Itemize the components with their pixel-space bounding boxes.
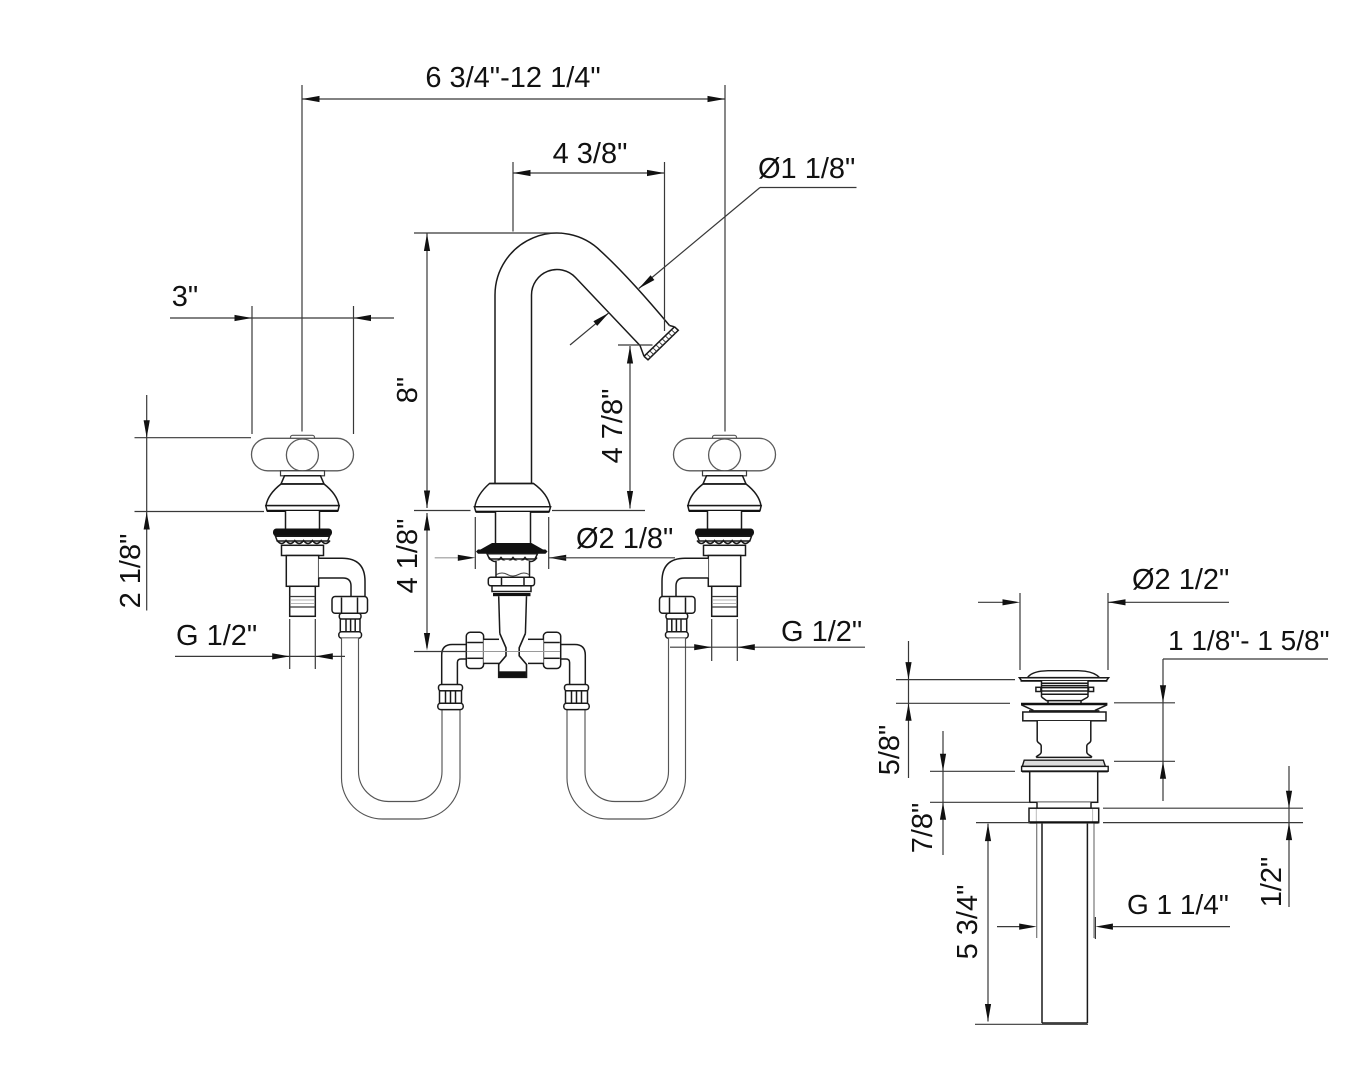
svg-text:5/8": 5/8"	[874, 725, 906, 776]
svg-text:4 3/8": 4 3/8"	[553, 138, 628, 170]
svg-text:1 1/8"- 1 5/8": 1 1/8"- 1 5/8"	[1168, 625, 1330, 656]
svg-text:4 1/8": 4 1/8"	[392, 519, 424, 594]
svg-text:3": 3"	[172, 281, 198, 313]
svg-text:Ø1 1/8": Ø1 1/8"	[758, 153, 855, 185]
svg-text:Ø2 1/8": Ø2 1/8"	[576, 523, 673, 555]
svg-text:4 7/8": 4 7/8"	[597, 389, 629, 464]
svg-text:6 3/4"-12 1/4": 6 3/4"-12 1/4"	[425, 62, 600, 94]
svg-text:G 1/2": G 1/2"	[176, 620, 257, 652]
svg-text:8": 8"	[392, 377, 424, 403]
svg-text:G 1/2": G 1/2"	[781, 616, 862, 648]
svg-text:5 3/4": 5 3/4"	[952, 885, 984, 960]
svg-text:7/8": 7/8"	[907, 803, 939, 854]
svg-text:G 1 1/4": G 1 1/4"	[1127, 889, 1229, 920]
svg-text:1/2": 1/2"	[1256, 857, 1288, 908]
svg-text:2 1/8": 2 1/8"	[115, 534, 147, 609]
svg-text:Ø2 1/2": Ø2 1/2"	[1132, 564, 1229, 596]
